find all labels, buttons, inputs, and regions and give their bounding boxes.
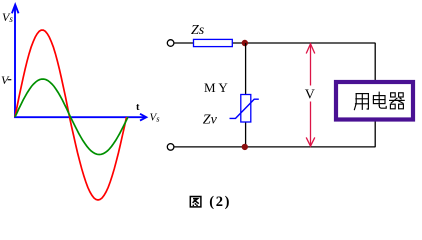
- node junction top: [242, 40, 247, 45]
- svg-text:M Y: M Y: [204, 80, 228, 95]
- node V-axis (blue vertical axis with arrow): [12, 5, 19, 118]
- varistor Zv (MY) body: [241, 95, 251, 123]
- svg-text:t: t: [136, 102, 140, 113]
- svg-text:V: V: [305, 87, 315, 102]
- wire right side (vertical, behind load box): [374, 43, 376, 147]
- caption 图 (figure glyph): [190, 197, 201, 207]
- varistor Zv diagonal stroke: [230, 99, 259, 118]
- terminal top-left: [167, 40, 174, 47]
- glyph 用: [354, 94, 368, 110]
- svg-text:Zs: Zs: [191, 23, 205, 38]
- label 用电器 (drawn glyphs): [354, 92, 404, 109]
- glyph 电: [373, 92, 386, 108]
- resistor Zs: [194, 39, 233, 46]
- node t-axis (blue horizontal axis with arrow): [14, 114, 146, 121]
- wire top (terminal to Zs to right side): [174, 42, 194, 44]
- glyph 器: [390, 93, 405, 109]
- curve Vs source sine (red): [15, 30, 127, 200]
- curve clamped output sine (green): [15, 79, 128, 154]
- load box 用电器 (purple frame, covers right wire): [336, 82, 413, 120]
- wire bottom (terminal to right side): [174, 146, 376, 148]
- svg-text:Vs: Vs: [150, 112, 161, 124]
- svg-text:(2): (2): [209, 194, 231, 210]
- terminal bottom-left: [167, 144, 174, 151]
- wire varistor branch (vertical): [245, 43, 247, 95]
- svg-text:Zv: Zv: [203, 112, 218, 127]
- arrow V (voltage measurement, double-headed): [306, 44, 315, 146]
- node junction bottom: [242, 144, 247, 149]
